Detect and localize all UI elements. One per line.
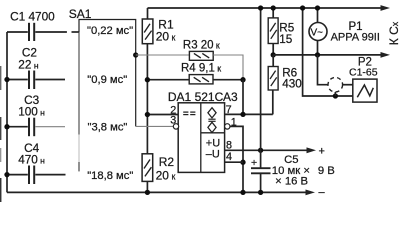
DA1 body — [178, 103, 224, 173]
node junction C3 / left bus — [4, 124, 9, 129]
wire pin 7 (collector output) to R6 — [225, 113, 273, 115]
wire left vertical bus — [6, 32, 8, 192]
svg-text:× 16 В: × 16 В — [275, 175, 308, 187]
wire measurement bus to Cx — [273, 54, 382, 56]
C5 plates — [251, 167, 271, 169]
oscilloscope P2 C1-65 — [349, 57, 378, 103]
wire R2 bottom lead — [146, 181, 148, 192]
P2 body — [353, 79, 377, 102]
R3 body — [189, 51, 213, 60]
node junction C4 / left bus — [4, 172, 9, 177]
node junction top bus / P2 branch — [300, 5, 305, 10]
node junction top bus / P1 — [315, 5, 320, 10]
wire pin 3 (inverting input) from SA1 common — [136, 125, 174, 127]
wire C2 left lead — [7, 79, 28, 81]
wire pin 4 minus supply — [225, 161, 243, 163]
wire C4 right lead to SA1 contact 4 — [35, 174, 65, 176]
wire top bus to P2 lower input — [303, 8, 353, 96]
wire bottom minus bus — [7, 191, 307, 193]
R1 body — [142, 19, 153, 44]
svg-text:+: + — [319, 145, 325, 157]
wire R1 bottom to R2 top — [146, 44, 148, 154]
wire pin 2 (non-inverting input) — [147, 114, 178, 116]
node junction top bus / R5 — [271, 5, 276, 10]
comparator DA1 521SA3 — [168, 90, 238, 172]
wire R5 top lead — [272, 8, 274, 18]
C2 plates — [28, 71, 30, 90]
svg-text:15: 15 — [279, 33, 293, 46]
wire C2 right lead to SA1 contact 2 — [35, 79, 65, 81]
node junction R2 / bottom bus — [145, 190, 150, 195]
wire R4 left lead — [147, 79, 189, 81]
svg-text:–: – — [319, 186, 326, 198]
P2 waveform symbol — [357, 85, 373, 97]
wire C4 left lead — [7, 174, 28, 176]
wire top bus down to pin 8 rail — [260, 8, 262, 150]
wire R4 right lead — [213, 79, 243, 81]
svg-text:R2: R2 — [159, 155, 175, 169]
node junction pin1 rail / bottom bus — [240, 190, 245, 195]
svg-text:20к: 20к — [156, 169, 176, 183]
output stage diamond symbols — [208, 108, 216, 118]
wire probe to lower wire link — [334, 92, 336, 96]
R5 body — [268, 18, 278, 44]
SA1 contact travel line — [78, 32, 80, 135]
svg-text:430: 430 — [282, 78, 302, 91]
wire R3 right lead down to R4 junction — [213, 55, 243, 80]
node junction pin1 / pin4 — [240, 160, 245, 165]
capacitor C5 — [251, 150, 335, 192]
wire P1 top lead — [317, 8, 319, 23]
wire SA1 common path — [79, 20, 136, 127]
svg-text:"18,8 мс": "18,8 мс" — [87, 170, 133, 182]
svg-text:С1-65: С1-65 — [349, 66, 378, 78]
wire C3 right lead to SA1 contact 3 — [35, 126, 65, 128]
node junction measure bus / P1 / probe — [315, 52, 320, 57]
resistor R3 — [136, 39, 243, 79]
svg-text:22н: 22н — [18, 57, 39, 71]
wire C1 left lead — [7, 31, 28, 33]
svg-text:DA1 521СА3: DA1 521СА3 — [168, 90, 238, 104]
wire C3 left lead — [7, 126, 28, 128]
resistor R2 — [142, 154, 175, 193]
node junction C2 / left bus — [4, 77, 9, 82]
node junction C5 / bottom bus — [258, 190, 263, 195]
scan edge marks — [0, 66, 2, 90]
pin 3 inversion circle — [173, 124, 178, 129]
wire R5 bottom lead — [272, 44, 274, 55]
wire R6 top lead — [272, 55, 274, 67]
svg-text:C5: C5 — [284, 154, 298, 166]
P1 voltmeter circle — [309, 23, 327, 41]
svg-text:"0,9 мс": "0,9 мс" — [87, 74, 127, 86]
node junction top bus / supply drop — [258, 5, 263, 10]
node junction pin7 / R3R4 — [240, 112, 245, 117]
capacitor C4 — [7, 141, 66, 184]
resistor R1 — [142, 8, 175, 44]
svg-text:9 В: 9 В — [318, 165, 335, 177]
capacitor C2 — [7, 45, 65, 89]
SA1 moving contact at position 1 — [72, 31, 80, 33]
node junction R3/R4 — [240, 77, 245, 82]
svg-text:–U: –U — [206, 149, 220, 161]
capacitor C3 — [7, 93, 65, 136]
node junction R5 / R6 / measure wire — [271, 52, 276, 57]
node junction pin2 / R column — [145, 112, 150, 117]
svg-text:V~: V~ — [311, 28, 324, 39]
node junction pin8 / C5 / top bus drop — [258, 148, 263, 153]
node junction R1/R2/R4 — [145, 77, 150, 82]
svg-text:470н: 470н — [18, 153, 45, 167]
svg-text:20к: 20к — [156, 30, 176, 44]
node arrow plus supply terminal — [307, 147, 317, 153]
meter P1 APPA 99II — [309, 8, 380, 55]
wire P1 bottom lead — [317, 41, 319, 55]
wire R3R4 junction to pin 7 — [242, 80, 244, 115]
wire R3 left lead — [136, 54, 190, 56]
wire C5 top lead — [260, 150, 262, 167]
switch SA1 — [69, 7, 136, 182]
wire probe branch to P2 upper input — [318, 55, 329, 85]
C1 plates — [28, 23, 30, 41]
pin 1 output circle — [225, 124, 230, 129]
R2 body — [142, 154, 153, 182]
R4 body — [189, 75, 213, 84]
svg-text:+: + — [251, 157, 257, 169]
node arrow to Cx (bottom terminal) — [381, 52, 391, 58]
resistor R4 — [147, 63, 243, 84]
C3 plates — [28, 118, 30, 137]
comparator == symbol — [183, 111, 188, 113]
R6 body — [268, 67, 278, 91]
node arrow to Cx (top terminal) — [381, 5, 391, 11]
wire C5 bottom lead — [260, 174, 262, 192]
svg-text:100н: 100н — [18, 105, 45, 119]
wire top supply bus — [148, 7, 383, 9]
node arrow minus supply terminal — [306, 190, 316, 196]
wire R1 top lead — [147, 8, 149, 19]
capacitor C1 — [7, 9, 67, 41]
node junction probe link / P2 wire — [333, 93, 338, 98]
svg-text:"3,8 мс": "3,8 мс" — [88, 122, 128, 134]
resistor R5 — [268, 8, 295, 55]
resistor R6 — [268, 55, 302, 115]
wire R6 bottom lead to pin 7 — [272, 90, 274, 114]
wire C1 right lead to SA1 contact 1 — [35, 31, 67, 33]
node junction SA1 common / R3 tap — [133, 52, 138, 57]
probe dashed circle — [328, 77, 343, 92]
svg-text:"0,22 мс": "0,22 мс" — [87, 25, 133, 37]
C4 plates — [28, 166, 30, 185]
svg-text:APPA 99II: APPA 99II — [331, 32, 380, 44]
wire pin 8 plus supply — [225, 149, 308, 151]
wire pin 1 to minus rail — [230, 126, 243, 192]
svg-text:C1 4700: C1 4700 — [10, 9, 55, 23]
